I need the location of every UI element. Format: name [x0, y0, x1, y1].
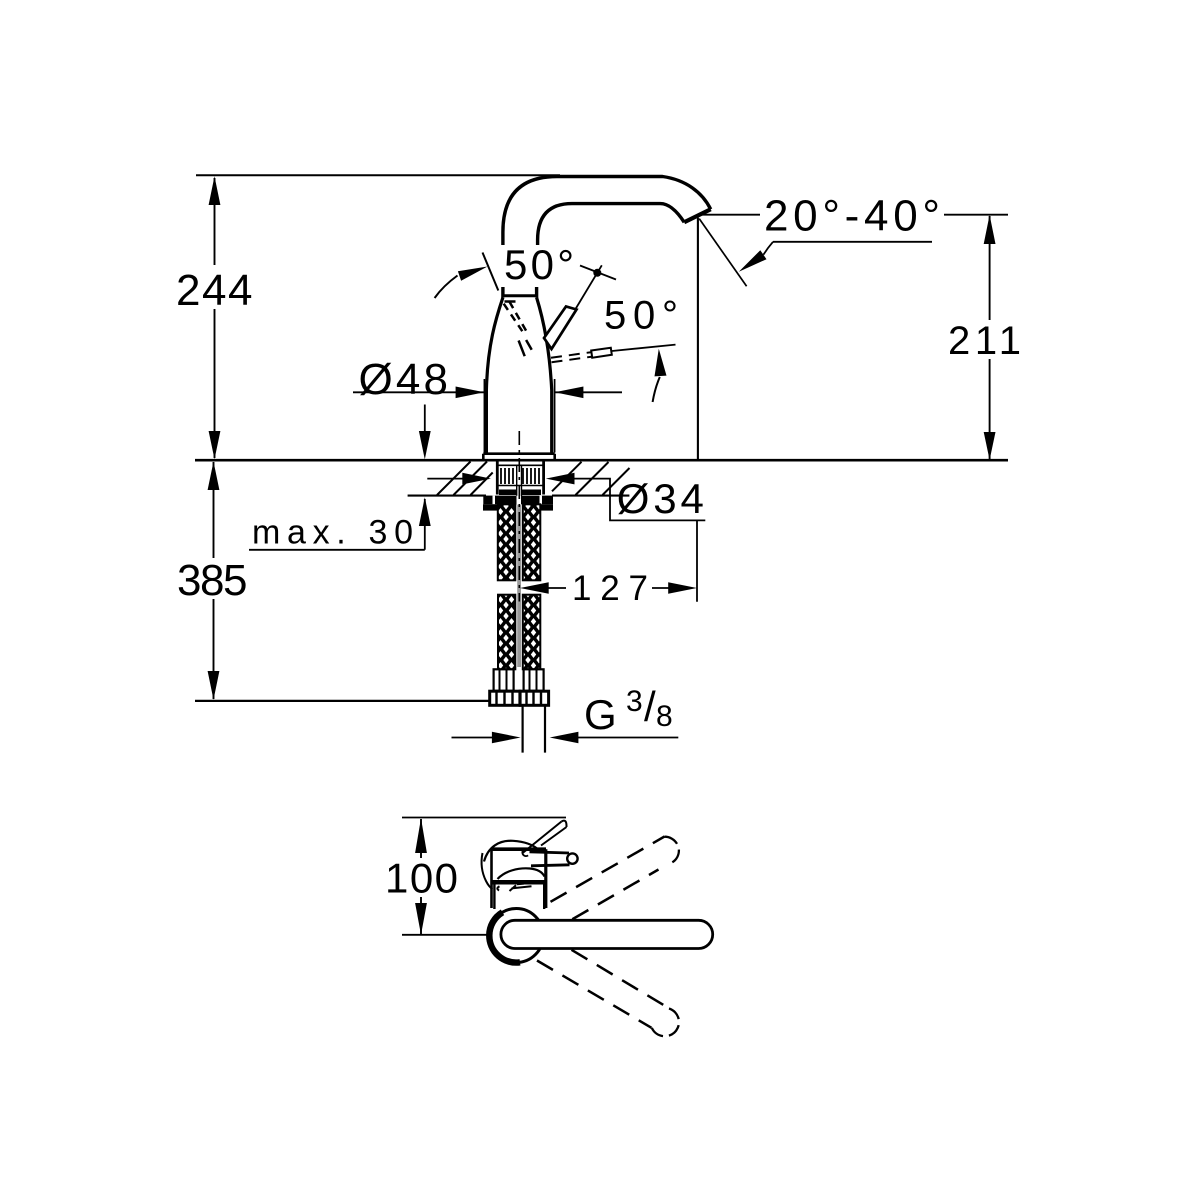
- spout mouth cut: [684, 209, 711, 222]
- dimension Ø34: [427, 473, 705, 602]
- counter hatching left: [437, 462, 493, 496]
- svg-text:385: 385: [177, 556, 248, 605]
- dimension 211 line: [944, 215, 1024, 460]
- dimension 385 line: [172, 462, 254, 700]
- svg-text:127: 127: [572, 569, 648, 608]
- svg-text:211: 211: [948, 319, 1021, 363]
- left 50° reference tick line: [483, 253, 499, 291]
- svg-text:Ø34: Ø34: [617, 475, 704, 522]
- lower hose section right (braided): [523, 595, 541, 670]
- wire outlet angle reference diagonal: [699, 219, 746, 287]
- neck cap joint line: [502, 294, 538, 297]
- dimension G 3/8: [452, 683, 679, 743]
- spout neck vertical segments below 50° label: [503, 286, 537, 298]
- hex nuts: [490, 691, 520, 705]
- locknut ears below washer: [483, 504, 498, 510]
- faucet centerline (dash-dot): [518, 431, 520, 602]
- lever tip sketch pointing up-right: [522, 822, 567, 854]
- svg-text:244: 244: [176, 266, 253, 315]
- svg-text:50°: 50°: [504, 241, 574, 288]
- sketch marks below band: [497, 884, 531, 891]
- body ring (top view): [489, 909, 543, 963]
- dimension max. 30: [249, 405, 431, 552]
- cartridge housing box (top view): [492, 847, 547, 851]
- lever rod (top view): [530, 852, 570, 866]
- svg-text:Ø48: Ø48: [359, 355, 449, 404]
- svg-text:G: G: [584, 691, 617, 738]
- svg-text:/: /: [644, 683, 656, 730]
- lever axis line with end mark: [576, 265, 602, 309]
- spout bar (top view, solid): [501, 920, 713, 948]
- dimension 100: [381, 818, 566, 935]
- neck cap inner line: [505, 300, 516, 303]
- hose end fittings: [494, 669, 514, 691]
- wire spout-tip vertical projection line: [697, 218, 699, 460]
- wire countertop surface line: [195, 459, 1008, 462]
- wire top reference line (spout height): [196, 174, 560, 176]
- upper hose section right (braided): [523, 504, 541, 580]
- counter underside lines: [408, 495, 630, 497]
- svg-text:50°: 50°: [604, 294, 678, 338]
- dimension 127: [520, 569, 697, 608]
- base plate: [483, 454, 554, 460]
- body outline: [486, 298, 503, 454]
- wire bottom reference line (hose end): [195, 700, 490, 702]
- dimension Ø48: [353, 355, 622, 453]
- mounting washer under counter: [483, 496, 553, 505]
- lower hose section left (braided): [498, 595, 515, 670]
- hidden lever dashes inside body: [504, 302, 527, 332]
- central tube: [517, 465, 522, 504]
- label 20°-40° with leader: [739, 191, 944, 271]
- svg-text:8: 8: [656, 700, 673, 733]
- svg-text:100: 100: [385, 855, 458, 902]
- threaded shank: [497, 461, 543, 495]
- small curl sketch at lever base: [522, 849, 528, 856]
- swivel range lower dashed spout: [537, 950, 679, 1036]
- counter hatching right: [552, 462, 630, 495]
- label 50° upper (lever swing): [499, 241, 578, 288]
- right 50° indicator arc and arrow: [653, 377, 660, 402]
- lever hood sketch curves (top view): [484, 841, 539, 862]
- upper hose section left (braided): [498, 504, 516, 580]
- lever lowered position dashed: [551, 352, 591, 358]
- lever handle (raised position): [544, 307, 577, 350]
- dimension 244 line: [172, 176, 257, 459]
- swivel range upper dashed spout: [547, 837, 679, 935]
- wire spout-tip horizontal reference to 211: [702, 214, 1009, 216]
- spout outer profile: [503, 177, 711, 246]
- connection pipe G3/8: [523, 705, 545, 752]
- spout inner profile: [538, 204, 685, 246]
- svg-text:3: 3: [626, 685, 643, 718]
- pull rod between hoses: [517, 505, 521, 667]
- left 50° indicator arc and arrow: [435, 276, 458, 299]
